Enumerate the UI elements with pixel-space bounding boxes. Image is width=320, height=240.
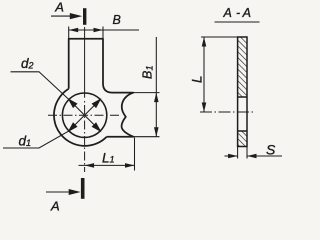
svg-text:S: S <box>266 142 276 158</box>
svg-text:A: A <box>242 6 251 20</box>
svg-text:L: L <box>190 75 205 83</box>
svg-text:B1: B1 <box>141 65 156 79</box>
svg-text:A: A <box>50 199 60 214</box>
svg-text:A: A <box>54 0 64 15</box>
svg-text:A: A <box>223 6 232 20</box>
svg-text:d2: d2 <box>21 56 34 71</box>
svg-text:-: - <box>236 6 240 20</box>
svg-text:B: B <box>113 13 121 27</box>
svg-text:d1: d1 <box>19 133 32 148</box>
svg-text:L1: L1 <box>102 150 115 165</box>
